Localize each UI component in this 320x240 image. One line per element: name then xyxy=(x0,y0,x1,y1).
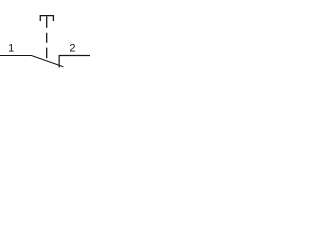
actuator stem dashed link segment 3 xyxy=(46,48,48,59)
actuator stem dashed link segment 1 xyxy=(46,16,48,28)
svg-text:1: 1 xyxy=(8,43,14,55)
moving contact xyxy=(31,56,63,67)
actuator stem dashed link segment 2 xyxy=(46,33,48,43)
terminal 1 wire xyxy=(0,55,32,57)
terminal 2 wire xyxy=(59,56,90,68)
svg-text:2: 2 xyxy=(69,43,75,55)
push-button actuator bracket xyxy=(40,16,53,21)
